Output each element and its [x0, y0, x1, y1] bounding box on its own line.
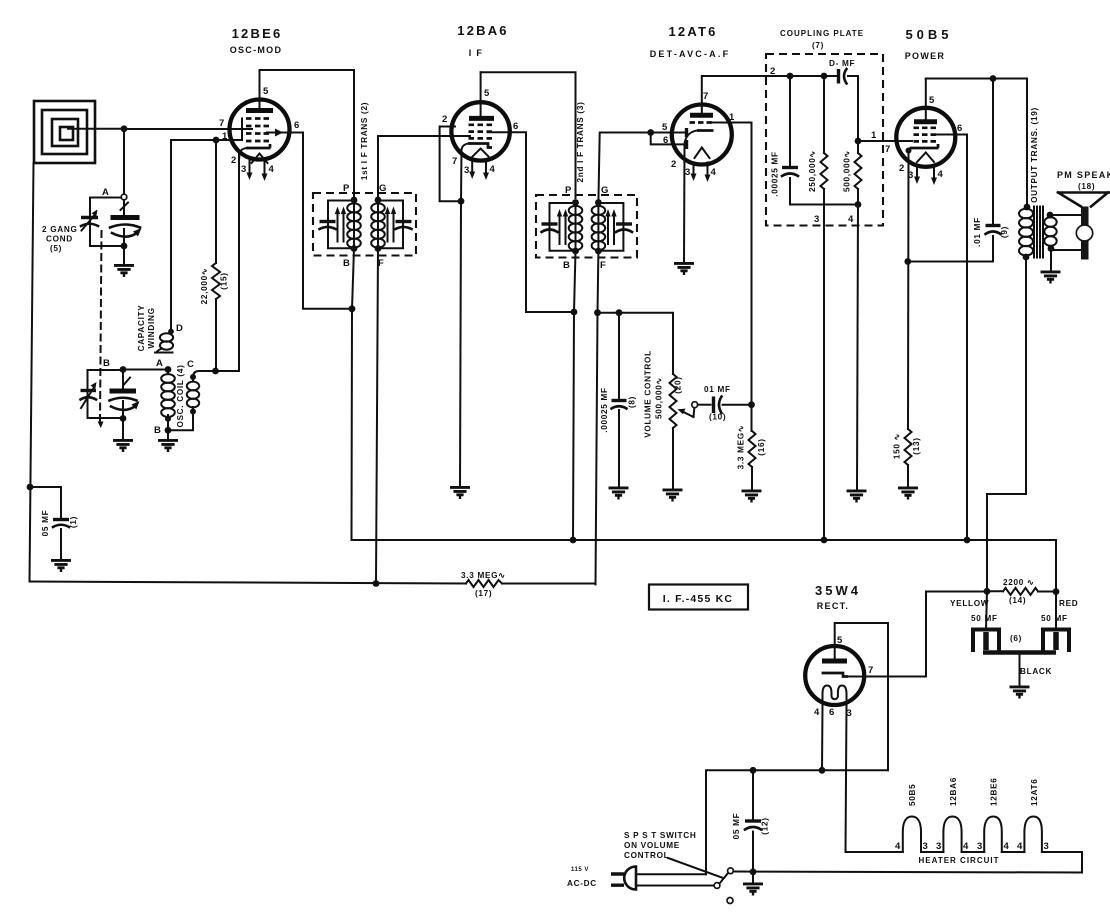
svg-text:500,000∿: 500,000∿ [655, 377, 664, 419]
electrolytic common bar [983, 650, 1056, 655]
svg-text:7: 7 [885, 144, 890, 155]
svg-text:05 MF: 05 MF [41, 510, 50, 537]
svg-text:12AT6: 12AT6 [1030, 779, 1039, 806]
resistor 250,000 [821, 76, 828, 540]
wire AF grid to 50B5 pin7 [858, 140, 912, 142]
wire B junction down to B+ bus [351, 309, 354, 540]
svg-text:3: 3 [908, 170, 913, 181]
svg-text:(1): (1) [69, 516, 78, 528]
svg-text:4: 4 [963, 841, 969, 852]
transformer 2nd IF TRANS (3) dashed can [536, 195, 637, 258]
wire cathode tap to cap9 [908, 236, 993, 262]
wire 35W4 pin7 to yellow node [848, 592, 987, 677]
wire 12BE6 pin2 drop [238, 152, 240, 371]
ground 12AT6 cathode [674, 263, 694, 273]
wire antenna to node [68, 128, 124, 130]
node plate B+ tap [990, 75, 997, 82]
12BA6 heater [473, 149, 489, 157]
inductor 2nd IF secondary winding [592, 203, 606, 252]
wire 50B5 pin6 screen [937, 135, 967, 541]
svg-text:(15): (15) [220, 272, 229, 289]
wire primary bottom to junction [352, 249, 354, 309]
wire B+ bus [352, 540, 1057, 592]
capacitor 50 MF yellow side [973, 591, 999, 652]
svg-text:DET-AVC-A.F: DET-AVC-A.F [650, 49, 731, 59]
capacitor .00025 MF (8) [612, 313, 627, 487]
wire 12AT6 plate to coupling plate [702, 76, 837, 115]
node osc coil primary bottom [165, 416, 171, 422]
svg-text:4: 4 [1004, 841, 1010, 852]
capacitor 2nd IF secondary trim [616, 224, 632, 232]
pin 5 lead [259, 70, 261, 111]
svg-text:2: 2 [899, 163, 904, 174]
35W4 plate [822, 659, 847, 664]
svg-text:(6): (6) [1010, 634, 1022, 643]
node AF grid out [855, 138, 862, 145]
node screen on bus [964, 537, 971, 544]
tube 12BA6 V2 envelope [451, 102, 509, 160]
inductor osc coil primary [161, 370, 175, 429]
svg-text:1st I F TRANS (2): 1st I F TRANS (2) [360, 102, 369, 180]
node antenna junction [121, 125, 128, 132]
svg-text:(18): (18) [1078, 182, 1095, 191]
svg-text:50 MF: 50 MF [1041, 614, 1068, 623]
pin 3 lead with arrow [916, 166, 918, 177]
12BA6 grids [469, 125, 493, 139]
wire 12BE6 plate run to 1st IF P [260, 70, 355, 196]
wire diode pin6 stub [651, 133, 685, 145]
capacitor 1st IF primary trim [320, 222, 336, 230]
switch arm [720, 873, 729, 884]
12BA6 plate [469, 116, 494, 121]
svg-text:12BE6: 12BE6 [232, 26, 283, 41]
12BE6 cathode [246, 144, 271, 148]
node 250k on bus [821, 537, 828, 544]
svg-text:(8): (8) [628, 396, 637, 408]
svg-text:3: 3 [241, 164, 246, 175]
wire plug bottom prong to switch [636, 885, 714, 887]
12BA6 cathode [468, 144, 492, 148]
svg-text:.00025 MF: .00025 MF [771, 151, 780, 196]
leader line to switch [668, 858, 723, 878]
tube 35W4 V5 envelope [805, 646, 864, 705]
svg-text:115 V: 115 V [571, 867, 589, 873]
svg-text:500,000∿: 500,000∿ [843, 150, 852, 192]
capacitor 2nd IF primary trim [542, 224, 558, 232]
svg-text:12AT6: 12AT6 [668, 24, 717, 39]
12AT6 heater [695, 148, 710, 159]
node yellow [984, 588, 991, 595]
svg-text:(7): (7) [812, 41, 824, 50]
pin 4 lead with arrow [707, 163, 709, 176]
node G [375, 197, 382, 204]
wire G up to 12BA6 grid [378, 136, 470, 200]
1st IF primary tank frame [328, 201, 354, 249]
svg-text:250,000∿: 250,000∿ [808, 150, 817, 192]
50B5 plate [914, 119, 937, 124]
svg-text:I F: I F [469, 48, 483, 58]
svg-text:(16): (16) [757, 438, 766, 455]
node 2nd IF secondary bottom [595, 248, 602, 255]
wire 12BA6 plate run to 2nd IF P [481, 72, 576, 198]
tube 12AT6 V3 envelope [672, 105, 732, 165]
pin 5 lead [925, 79, 927, 122]
wire plug top prong [636, 873, 706, 875]
wire to ground [167, 430, 169, 440]
svg-text:6: 6 [663, 135, 668, 146]
wire det line to volume control [598, 313, 674, 374]
switch off position [727, 898, 733, 904]
svg-text:3: 3 [977, 841, 982, 852]
ground 500k [847, 491, 867, 501]
wire gang cond A drop [123, 129, 125, 194]
1st IF secondary tank frame [378, 201, 403, 249]
switch moving contact [728, 868, 734, 874]
svg-text:2: 2 [442, 114, 447, 125]
heater loop 12BE6 [984, 817, 1002, 853]
node cap8 tap [616, 309, 623, 316]
svg-text:1: 1 [729, 112, 735, 123]
svg-text:4: 4 [814, 707, 820, 718]
svg-text:5: 5 [484, 88, 490, 99]
svg-text:B: B [563, 260, 570, 271]
wire F2 down to det line [597, 251, 600, 313]
50B5 cathode [910, 144, 939, 148]
svg-text:BLACK: BLACK [1020, 667, 1052, 676]
node left border tap [27, 484, 34, 491]
capacitor 1st IF secondary trim [396, 222, 412, 230]
ground 50B5 cathode [898, 488, 918, 498]
svg-text:5: 5 [837, 635, 843, 646]
svg-text:3: 3 [464, 165, 469, 176]
variable capacitor A (2 gang cond section A) [110, 203, 142, 237]
inductor 2nd IF primary winding [569, 203, 583, 252]
12BE6 plate [246, 108, 273, 113]
resistor 150 (15) cathode bias [905, 429, 912, 487]
svg-text:I. F.-455 KC: I. F.-455 KC [663, 593, 733, 605]
svg-text:CAPACITY: CAPACITY [137, 305, 146, 352]
node det junction [594, 309, 601, 316]
capacitor .05 MF (12) [745, 770, 761, 872]
svg-text:(12): (12) [761, 817, 770, 834]
svg-text:G: G [379, 183, 386, 194]
ground speaker secondary [1041, 272, 1061, 282]
wire cathode to ground [684, 131, 697, 263]
node 12BA6 cathode junction [458, 198, 465, 205]
resistor 2200 (14) [987, 588, 1056, 595]
wire to ground [122, 418, 124, 440]
node wiper terminal [692, 402, 698, 408]
svg-text:A: A [102, 187, 109, 198]
svg-text:6: 6 [957, 123, 962, 134]
svg-text:4: 4 [895, 841, 901, 852]
node coupling in [787, 73, 794, 80]
12BE6 heater [252, 154, 268, 164]
svg-text:3.3 MEG∿: 3.3 MEG∿ [461, 571, 506, 580]
heater loop 50B5 [903, 817, 921, 853]
wire secondary ground [1050, 250, 1052, 271]
dashed gang link [100, 231, 102, 421]
capacitor 2-gang section A frame [90, 198, 124, 247]
svg-text:6: 6 [294, 120, 299, 131]
12AT6 plate [690, 113, 713, 118]
trimmer capacitor A [81, 210, 98, 231]
svg-text:4: 4 [269, 164, 275, 175]
12AT6 grid dashes [690, 121, 713, 124]
svg-text:12BA6: 12BA6 [949, 777, 958, 806]
svg-text:P: P [343, 183, 350, 194]
svg-text:RECT.: RECT. [817, 601, 850, 611]
50B5 heater [917, 153, 934, 163]
svg-text:B: B [103, 358, 110, 369]
node red [1053, 588, 1060, 595]
node F on AVC line [373, 580, 380, 587]
wire left border vertical [30, 163, 34, 582]
svg-text:50 MF: 50 MF [971, 614, 998, 623]
variable capacitor B (osc section) [110, 378, 140, 410]
capacitor .01 MF (9) [986, 79, 1001, 235]
resistor 3.3 MEG (16) [749, 405, 756, 490]
ground under .05MF [51, 560, 71, 570]
wire cathode junction to ground [460, 201, 461, 486]
svg-text:4: 4 [490, 164, 496, 175]
svg-text:G: G [601, 185, 608, 196]
12AT6 diode plate pin5 [685, 128, 688, 137]
wire F down to AVC line [376, 249, 378, 584]
svg-text:7: 7 [219, 118, 224, 129]
node terminal A [121, 194, 127, 200]
node B bottom [120, 415, 127, 422]
box I.F.-455 KC [649, 585, 748, 610]
ground under gang B [113, 440, 133, 450]
node cap12 top [750, 767, 757, 774]
svg-text:50B5: 50B5 [905, 27, 952, 42]
svg-text:5: 5 [929, 95, 935, 106]
svg-text:6: 6 [513, 121, 518, 132]
pin 3 lead with arrow [693, 163, 695, 175]
tuning arrows 1st IF secondary [385, 207, 396, 242]
node on B+ bus [570, 537, 577, 544]
svg-text:7: 7 [703, 91, 708, 102]
wire 12BE6 cathode to pin2 [239, 148, 246, 160]
svg-text:2: 2 [770, 66, 775, 77]
svg-text:AC-DC: AC-DC [567, 879, 597, 888]
pin 4 lead with arrow [264, 159, 266, 175]
node 12BE6 grid junction [213, 137, 220, 144]
capacitor .00025 MF coupling [782, 76, 858, 205]
wire heater pin4 to AC line [821, 704, 824, 770]
ground under volume control [663, 490, 683, 500]
wire 12BE6 pin6 to 1st IF B [303, 133, 352, 309]
capacitor .01 MF (10) [698, 397, 752, 414]
svg-text:5: 5 [263, 86, 269, 97]
svg-text:P: P [565, 185, 572, 196]
svg-text:ON VOLUME: ON VOLUME [624, 841, 680, 850]
ground under cap8 [609, 488, 629, 498]
pin 4 lead with arrow [933, 166, 935, 178]
35W4 cathode [822, 673, 848, 677]
svg-text:COND: COND [46, 235, 73, 244]
node B (osc coil) [165, 427, 172, 434]
tuning arrows 1st IF primary [335, 207, 346, 242]
ground under gang A [114, 265, 134, 275]
svg-text:A: A [156, 358, 163, 369]
wire 50B5 cathode to pin2 [908, 148, 910, 429]
wire 12BA6 pin2 loop to cathode node [440, 127, 461, 202]
svg-text:12BE6: 12BE6 [990, 777, 999, 806]
svg-text:OSC-MOD: OSC-MOD [230, 45, 283, 55]
ground under osc coil [158, 440, 178, 450]
svg-text:OSC. COIL (4): OSC. COIL (4) [176, 364, 185, 427]
svg-text:(5): (5) [50, 244, 62, 253]
tube 12BE6 V1 envelope [230, 100, 290, 160]
node A bottom [121, 243, 128, 250]
tuning arrows 2nd IF primary [557, 209, 568, 244]
inductor 1st IF primary winding [347, 200, 361, 249]
pin 3 lead with arrow [249, 158, 251, 173]
node cap12 bottom on neutral bus [750, 868, 757, 875]
ground black [1010, 687, 1030, 697]
node 2nd IF primary bottom [572, 248, 579, 255]
svg-text:1: 1 [871, 130, 877, 141]
svg-text:HEATER CIRCUIT: HEATER CIRCUIT [919, 856, 1000, 865]
transformer 1st IF TRANS (2) dashed can [313, 193, 416, 256]
capacitor 2-gang section B frame [88, 370, 124, 419]
ground 12BA6 cathode [450, 487, 470, 497]
pin 4 lead with arrow [485, 160, 487, 174]
svg-text:5: 5 [662, 122, 668, 133]
svg-text:F: F [600, 260, 606, 271]
wire heater chain base [846, 852, 1083, 873]
12AT6 cathode [697, 129, 714, 132]
node coupling mid [821, 73, 828, 80]
svg-text:CONTROL: CONTROL [624, 851, 669, 860]
svg-text:01 MF: 01 MF [704, 385, 731, 394]
wire 50B5 plate run [926, 79, 1027, 208]
resistor 3.3 MEG (17) [466, 580, 596, 587]
wire secondary to speaker top [1050, 214, 1081, 216]
svg-text:150 ∿: 150 ∿ [893, 433, 902, 459]
svg-text:4: 4 [938, 169, 944, 180]
svg-text:RED: RED [1059, 599, 1078, 608]
volume control wiper arrow [678, 408, 695, 417]
wire 12AT6 pin1 grid out [712, 123, 752, 402]
wire cathode to pin7 drop [461, 144, 468, 202]
wire 2nd IF B down to bus [573, 251, 576, 540]
pin 6 arrow [267, 132, 303, 134]
svg-text:7: 7 [452, 156, 457, 167]
svg-text:7: 7 [868, 665, 873, 676]
svg-text:(9): (9) [1000, 226, 1009, 238]
wire common to ground [1019, 655, 1021, 687]
node G2 [595, 199, 602, 206]
svg-text:D: D [176, 323, 183, 334]
node P2 [572, 199, 579, 206]
svg-text:22,000∿: 22,000∿ [200, 268, 209, 305]
wire B node to osc coil A [123, 369, 168, 371]
svg-text:05 MF: 05 MF [732, 813, 741, 840]
wire 500k bottom to ground [857, 205, 858, 491]
35W4 heater filament [823, 686, 847, 705]
heater loop 12BA6 [943, 817, 961, 853]
svg-text:2 GANG: 2 GANG [42, 225, 78, 234]
wire node to 12BE6 pin 7 [124, 128, 252, 130]
svg-text:2: 2 [231, 155, 236, 166]
trimmer capacitor B [81, 382, 97, 408]
capacitor D- MF coupling [839, 69, 859, 84]
box coupling plate (7) dashed [766, 54, 883, 226]
2nd IF primary tank frame [550, 203, 576, 251]
node B top [120, 366, 127, 373]
svg-text:.01 MF: .01 MF [973, 217, 982, 247]
wire 35W4 plate to AC line [835, 623, 888, 770]
wire det return down to 3.3MEG17 line [596, 313, 598, 585]
svg-text:OUTPUT TRANS. (19): OUTPUT TRANS. (19) [1030, 107, 1039, 203]
node 1st IF secondary bottom [375, 245, 382, 252]
node diode tie [647, 129, 654, 136]
resistor 22,000 (13) grid leak [212, 140, 220, 371]
node cap10 to AF grid [748, 401, 755, 408]
wire C node line [193, 371, 239, 377]
svg-text:2: 2 [671, 159, 676, 170]
wire secondary to speaker bottom [1051, 249, 1081, 251]
svg-text:(10): (10) [709, 413, 726, 422]
svg-text:3.3 MEG∿: 3.3 MEG∿ [737, 425, 746, 470]
node pin2 [906, 148, 912, 154]
2nd IF secondary tank frame [598, 203, 623, 251]
svg-text:D- MF: D- MF [829, 59, 855, 68]
node heater pin4 [819, 767, 826, 774]
node osc coil A [165, 366, 172, 373]
svg-text:COUPLING PLATE: COUPLING PLATE [780, 29, 864, 38]
svg-text:2nd I F TRANS (3): 2nd I F TRANS (3) [576, 101, 585, 182]
tuning arrows 2nd IF secondary [605, 209, 616, 244]
pin 5 lead [480, 72, 482, 118]
pin 3 lead with arrow [471, 160, 473, 173]
transformer output trans (19) [1019, 204, 1057, 261]
node 1st IF primary bottom [351, 245, 358, 252]
50B5 grids [914, 128, 937, 142]
node cathode cap tap [904, 258, 911, 265]
svg-text:POWER: POWER [905, 51, 946, 61]
wire heater pin3 down to heater chain [846, 704, 847, 852]
svg-text:35W4: 35W4 [815, 583, 861, 598]
12BE6 grid bracket [241, 119, 243, 141]
wire output trans return jog [987, 257, 1026, 591]
speaker PM SPEAKER (18) [1058, 193, 1110, 260]
svg-text:12BA6: 12BA6 [457, 23, 508, 38]
inductor capacity winding [155, 329, 174, 353]
svg-text:3: 3 [685, 167, 690, 178]
svg-text:3: 3 [1044, 841, 1049, 852]
svg-text:2200 ∿: 2200 ∿ [1003, 578, 1035, 587]
svg-text:PM SPEAKER: PM SPEAKER [1057, 170, 1110, 180]
svg-text:(13): (13) [912, 437, 921, 454]
svg-text:1: 1 [222, 131, 228, 142]
svg-text:(14): (14) [1009, 596, 1026, 605]
svg-text:(20): (20) [674, 376, 683, 393]
node AVC junction [571, 309, 578, 316]
wire G2 up to 12AT6 diode plates [598, 133, 685, 203]
resistor 500,000 [855, 76, 862, 205]
svg-text:3: 3 [814, 214, 819, 225]
resistor volume control 500,000 (20) [670, 374, 677, 489]
svg-text:B: B [343, 258, 350, 269]
antenna loop (loop antenna, nested squares) [34, 101, 95, 163]
node grid junction on C line [212, 368, 219, 375]
wire 12BA6 pin6 [488, 132, 574, 312]
node P [351, 197, 358, 204]
